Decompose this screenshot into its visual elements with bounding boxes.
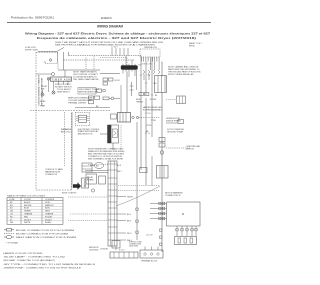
svg-text:THE TIMER CHART ABOVE: THE TIMER CHART ABOVE <box>73 78 99 81</box>
heater dashed wire <box>139 117 160 119</box>
svg-text:1 2 3 4 5: 1 2 3 4 5 <box>111 47 118 49</box>
svg-text:EOC: EOC <box>61 132 72 134</box>
svg-text:EFME427U: EFME427U <box>101 17 112 20</box>
svg-text:THERM: THERM <box>136 101 143 103</box>
svg-text:SINGLE PHASE: SINGLE PHASE <box>166 120 181 123</box>
svg-text:SEE SCHEMATIC DETAIL FOR MORE: SEE SCHEMATIC DETAIL FOR MORE <box>88 158 124 161</box>
wires into strip top <box>85 170 108 172</box>
relay connector bar K1 <box>121 66 138 70</box>
console connector arrow <box>73 182 81 190</box>
right small component <box>178 120 184 124</box>
svg-text:ROUGE: ROUGE <box>45 216 53 218</box>
svg-text:VIOLET: VIOLET <box>24 219 32 221</box>
svg-text:TERM BLOCK: TERM BLOCK <box>144 47 158 49</box>
legend row edge connector 1 <box>4 229 14 231</box>
bus N vertical <box>145 62 147 96</box>
console upper module P3 <box>82 163 92 172</box>
heater terminals <box>132 116 134 118</box>
svg-text:TERMINAL BLOCK: TERMINAL BLOCK <box>141 260 158 263</box>
svg-text:BU 1: BU 1 <box>127 214 131 216</box>
svg-text:YL: YL <box>148 133 150 135</box>
svg-text:Publication No. 5995702281: Publication No. 5995702281 <box>11 16 55 20</box>
strip right wires with labels <box>117 197 126 241</box>
buzzer oval <box>95 163 104 169</box>
svg-text:M: M <box>182 213 184 216</box>
svg-text:BLACK: BLACK <box>24 201 31 204</box>
wire drops left cluster <box>48 80 50 92</box>
svg-text:FAST FASTON CONNECTOR 6.35MM: FAST FASTON CONNECTOR 6.35MM <box>16 236 76 239</box>
main pcb dashed box <box>75 112 90 126</box>
svg-text:CODE: CODE <box>9 199 15 201</box>
svg-text:L1 N G L2 X: L1 N G L2 X <box>141 64 152 66</box>
relay boxes left of strip <box>86 174 97 184</box>
x137 connector marks <box>136 208 138 233</box>
dashed into strip <box>88 164 108 166</box>
svg-text:137067810: 137067810 <box>89 249 98 251</box>
svg-text:LAMPS COLOR OPTIONS:: LAMPS COLOR OPTIONS: <box>3 252 44 255</box>
svg-text:Esquema de cableado eléctrico: Esquema de cableado eléctrico - 327 and … <box>37 36 196 40</box>
sweep wire <box>116 186 160 206</box>
svg-text:TEMP SELECT: TEMP SELECT <box>57 91 71 93</box>
svg-text:EDGE CONNECTOR PITCH 5MM: EDGE CONNECTOR PITCH 5MM <box>16 233 68 235</box>
TB pins <box>142 57 160 62</box>
svg-text:N 120V: N 120V <box>150 99 157 101</box>
idler block <box>112 241 120 249</box>
capacitor dark block <box>108 125 112 143</box>
door switch <box>41 93 44 96</box>
svg-text:ROTARY SWITCH: ROTARY SWITCH <box>55 85 72 88</box>
branch vertical <box>131 82 133 96</box>
svg-text:-BLUE LAMP : CONNECTED TO LN2: -BLUE LAMP : CONNECTED TO LN2 <box>3 256 66 259</box>
svg-text:RD 3: RD 3 <box>127 233 131 235</box>
svg-text:VIOLET: VIOLET <box>45 219 53 221</box>
svg-text:BLUE: BLUE <box>24 208 30 210</box>
stubs above bus <box>112 48 128 56</box>
svg-text:BROWN: BROWN <box>24 205 32 207</box>
svg-text:BN 2: BN 2 <box>127 221 131 223</box>
svg-text:BEFORE SERVICING: BEFORE SERVICING <box>79 91 98 93</box>
svg-text:ORANGE: ORANGE <box>24 213 33 216</box>
timer block <box>51 77 72 81</box>
TB lower connector chevrons <box>143 70 160 74</box>
svg-text:THERMAL LIMITER: THERMAL LIMITER <box>68 102 86 105</box>
svg-text:GROUND STRAP: GROUND STRAP <box>167 131 184 134</box>
main pcb drop wire <box>71 112 73 188</box>
inner tick <box>44 61 46 63</box>
wire L1 vertical <box>57 52 59 63</box>
bus drop dashes <box>85 58 87 71</box>
svg-text:S1 S2: S1 S2 <box>115 80 120 82</box>
dashed feed wire <box>45 63 58 65</box>
main relay box <box>155 76 167 93</box>
svg-text:J1 EDGE: J1 EDGE <box>100 249 109 251</box>
thermistor circle <box>91 189 94 192</box>
svg-text:TABLE OF WIRE COLOR CODES: TABLE OF WIRE COLOR CODES <box>7 195 46 198</box>
sensor component <box>97 89 102 92</box>
push-to-start switch <box>63 52 65 70</box>
svg-text:USE THE RIGHT LAYOUT DISPOSITI: USE THE RIGHT LAYOUT DISPOSITION OF LINE… <box>55 41 164 44</box>
center vertical runs <box>136 122 138 240</box>
console connector block P5 <box>82 178 89 188</box>
svg-text:BOARD: BOARD <box>87 179 94 182</box>
heater feed line <box>75 107 110 109</box>
svg-text:L1 L2 N: L1 L2 N <box>146 235 153 237</box>
svg-text:VERT: VERT <box>45 211 51 213</box>
inline fuse box <box>140 168 148 173</box>
svg-text:SUPPLY WHEN INSTALLED: SUPPLY WHEN INSTALLED <box>168 73 194 76</box>
heater inlet box <box>111 114 117 119</box>
strip left wires <box>68 197 108 221</box>
TB pin drops <box>144 62 159 81</box>
board feed wires <box>150 204 167 219</box>
bus micro ticks and labels <box>135 70 137 90</box>
line filter symbol <box>49 59 52 62</box>
svg-text:* : OPTIONAL: * : OPTIONAL <box>5 242 19 245</box>
belt switch drop <box>115 246 117 250</box>
drum lamp <box>52 91 55 94</box>
svg-text:REV A: REV A <box>189 44 195 47</box>
centrifugal dashed branch <box>166 147 190 149</box>
harness dashed separator <box>30 110 110 112</box>
interlock boxes row <box>103 78 108 81</box>
svg-text:CONNECTOR: CONNECTOR <box>45 174 58 176</box>
feed line to fuse <box>36 73 52 75</box>
svg-text:ORANGE: ORANGE <box>45 213 54 216</box>
edge strip bottom block <box>110 252 138 258</box>
svg-text:-MY TYPE : CONNECTED TO LN2 WH: -MY TYPE : CONNECTED TO LN2 WHEN IN MODE… <box>3 264 96 266</box>
supply terminal block <box>140 250 163 258</box>
svg-text:COULEUR: COULEUR <box>45 199 55 201</box>
boxed caution note <box>78 88 96 95</box>
svg-text:MARRON: MARRON <box>45 204 54 207</box>
svg-text:P1 BK: P1 BK <box>40 101 46 103</box>
terminal block TB dashed outline <box>140 49 160 57</box>
svg-text:WHITE: WHITE <box>24 222 31 224</box>
feed connector symbols <box>159 202 165 220</box>
svg-text:RED: RED <box>24 216 29 218</box>
main pcb inner module <box>79 115 87 122</box>
edge connector strip J1 <box>108 161 117 246</box>
svg-text:GREEN: GREEN <box>24 211 31 213</box>
motor switch chain <box>159 138 165 142</box>
wire under bar <box>100 73 120 75</box>
fuse symbol <box>52 73 55 76</box>
svg-text:TIMER ASM: TIMER ASM <box>52 77 71 81</box>
branch ticks <box>130 86 134 90</box>
wire color table <box>7 198 63 225</box>
svg-text:EDGE CONN P5: EDGE CONN P5 <box>62 193 76 195</box>
feed wire with rise <box>38 48 64 52</box>
right aux component <box>177 96 186 104</box>
timer drops <box>59 81 69 84</box>
svg-text:-GREEN PUMP : CONNECTED TO LN3: -GREEN PUMP : CONNECTED TO LN3 OUTPUT MO… <box>3 267 82 269</box>
svg-text:L2 RD: L2 RD <box>146 125 152 127</box>
svg-text:240V 60HZ: 240V 60HZ <box>129 246 139 248</box>
svg-text:CONNECTOR J2: CONNECTOR J2 <box>165 195 181 197</box>
belt switch box <box>157 166 169 179</box>
terminal pair <box>47 77 50 80</box>
wire bus second <box>64 59 136 61</box>
svg-text:BK 6: BK 6 <box>117 165 121 167</box>
lamp options text <box>3 252 96 269</box>
motor block <box>175 237 197 245</box>
svg-text:NOIR: NOIR <box>45 202 50 204</box>
svg-text:4 3 2 1: 4 3 2 1 <box>119 250 125 252</box>
thermal fuse <box>103 97 109 100</box>
motor winding pins <box>177 226 196 236</box>
svg-text:AND SELECTOR: AND SELECTOR <box>78 132 93 135</box>
svg-text:BLANC: BLANC <box>45 221 52 224</box>
bus lower connector marks <box>160 229 162 245</box>
thermostat boxes <box>89 96 94 99</box>
svg-text:SUPPLY 60Hz: SUPPLY 60Hz <box>25 50 38 52</box>
wire bus top <box>69 55 142 57</box>
svg-text:EDGE CONNECTOR PITCH 3.96MM: EDGE CONNECTOR PITCH 3.96MM <box>16 230 74 232</box>
svg-text:OG: OG <box>10 214 13 216</box>
console dashed enclosure <box>36 52 72 190</box>
inlet thermistor pair <box>139 93 143 96</box>
dashed rows to bus <box>118 185 160 187</box>
svg-text:BLEU: BLEU <box>45 208 51 210</box>
motor control board <box>167 202 201 226</box>
heater relay box <box>118 113 131 123</box>
header rule <box>7 22 211 24</box>
heater feed vertical <box>126 72 128 113</box>
dashed wire to relay bar <box>100 57 127 59</box>
svg-text:SWITCH: SWITCH <box>186 149 194 151</box>
svg-text:SEE PROPER CLEARANCE FOR WIRIN: SEE PROPER CLEARANCE FOR WIRING AND ROUT… <box>55 44 156 47</box>
winding connector marks <box>176 229 197 231</box>
svg-text:-RED LAMP : CONNECTED TO LN1 (: -RED LAMP : CONNECTED TO LN1 (AS DEFAULT… <box>3 259 55 262</box>
console aux dashed drop <box>64 112 66 166</box>
legend row faston <box>4 236 14 239</box>
svg-text:N WH: N WH <box>40 106 46 108</box>
svg-text:COLOR: COLOR <box>24 199 31 201</box>
legend row edge connector 2 <box>4 232 14 234</box>
bar pin drops <box>123 56 135 78</box>
svg-text:GN/YE: GN/YE <box>127 197 134 199</box>
wire to timer <box>58 69 100 71</box>
svg-text:WH 5: WH 5 <box>117 171 122 173</box>
strip cells <box>108 164 117 240</box>
main right bus <box>161 62 163 77</box>
svg-text:WIRING DIAGRAM: WIRING DIAGRAM <box>97 25 123 29</box>
